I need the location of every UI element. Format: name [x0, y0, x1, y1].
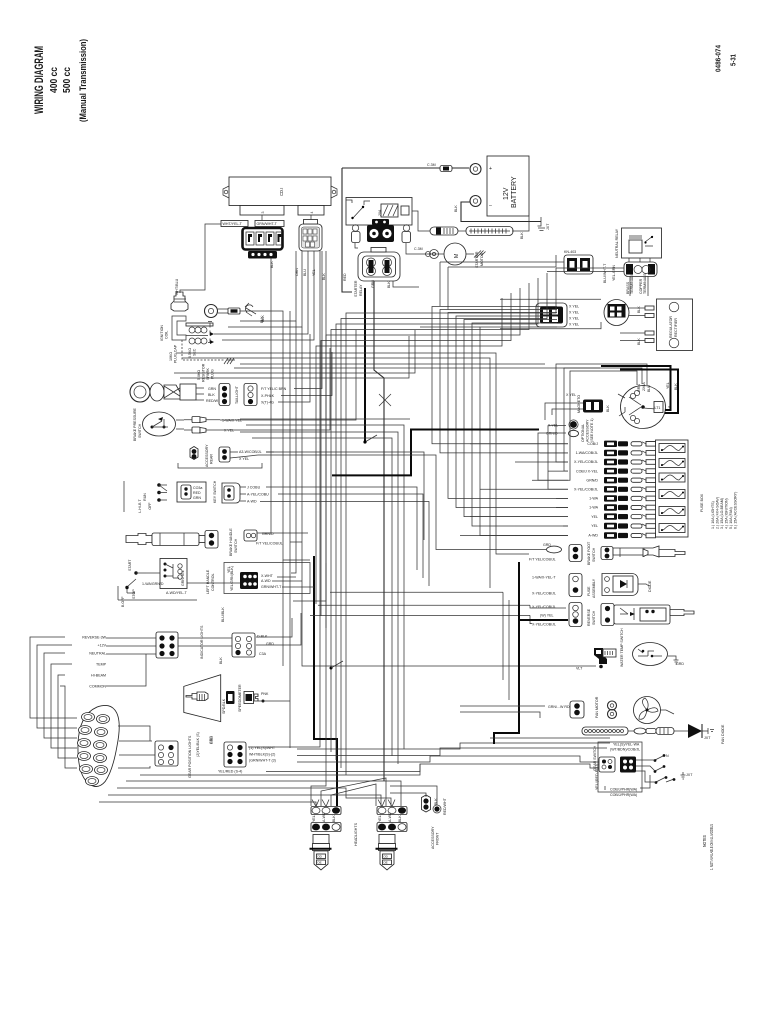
fan motor feed — [460, 705, 545, 707]
fuse row 6 — [480, 486, 656, 492]
indicator 2x3 connector right — [219, 607, 274, 664]
fuse assembly (diode) row — [532, 574, 652, 599]
battery + terminal — [470, 164, 481, 175]
brake pressure rows — [220, 330, 356, 420]
indicator right connector wires — [178, 637, 232, 639]
handlebar connector wires — [277, 576, 296, 578]
svg-text:DIODE: DIODE — [648, 580, 652, 592]
svg-text:C3A: C3A — [259, 652, 267, 656]
svg-text:GRD: GRD — [266, 642, 274, 646]
label box GRN/WHT-T — [255, 221, 284, 227]
svg-text:X YEL: X YEL — [569, 317, 579, 321]
svg-text:SEC: SEC — [193, 348, 197, 356]
wire CDI box to connector — [261, 215, 263, 221]
svg-text:12V: 12V — [503, 187, 510, 200]
regulator feed staircase R2 — [432, 307, 568, 444]
speedometer — [184, 675, 269, 744]
ignition coil — [160, 316, 235, 382]
svg-text:BLK: BLK — [332, 815, 336, 822]
neutral relay feeds — [556, 267, 624, 269]
svg-text:YEL(S)/YEL-WA: YEL(S)/YEL-WA — [613, 743, 640, 747]
svg-text:400 cc: 400 cc — [48, 67, 60, 93]
svg-text:RED/W: RED/W — [206, 399, 219, 403]
CDI trunk verticals with west elbows — [262, 258, 271, 533]
wire battery minus thick — [461, 202, 541, 222]
svg-text:BLK: BLK — [674, 383, 678, 390]
svg-text:A-WD: A-WD — [247, 500, 257, 504]
AC connector frame — [500, 298, 601, 300]
svg-text:GRN/D: GRN/D — [586, 478, 598, 482]
svg-text:X-PHLK: X-PHLK — [261, 394, 275, 398]
optional accessory terminals — [546, 418, 594, 442]
svg-text:X-WHT: X-WHT — [261, 574, 274, 578]
svg-text:FAN DIODE: FAN DIODE — [721, 724, 725, 744]
svg-text:GRD: GRD — [676, 662, 684, 666]
svg-text:ACCESSORY: ACCESSORY — [205, 444, 209, 467]
accessory front — [422, 795, 448, 849]
svg-text:A3-W/COB/JL: A3-W/COB/JL — [239, 450, 262, 454]
svg-text:YEL: YEL — [591, 515, 598, 519]
key switch rows — [266, 487, 417, 570]
svg-text:1.) 10A (LIGHTS): 1.) 10A (LIGHTS) — [711, 501, 715, 529]
svg-text:M: M — [454, 254, 460, 258]
svg-text:JXT: JXT — [704, 736, 711, 740]
svg-text:BRAKE PRESSURE: BRAKE PRESSURE — [133, 407, 137, 441]
svg-text:1-WA/X YEL: 1-WA/X YEL — [222, 419, 242, 423]
svg-text:1. NOT AVAILABLE ON ALL MODELS: 1. NOT AVAILABLE ON ALL MODELS — [709, 824, 714, 870]
svg-text:X YEL: X YEL — [569, 305, 579, 309]
svg-text:X-YEL/COB/JL: X-YEL/COB/JL — [532, 605, 556, 609]
svg-text:PLUG: PLUG — [211, 369, 215, 379]
headlight 2 — [376, 800, 408, 871]
fuse row 9 — [470, 513, 656, 519]
svg-text:2.) 20A (4X4-SOAV): 2.) 20A (4X4-SOAV) — [716, 497, 720, 529]
starter relay connector — [343, 248, 400, 298]
pod to connector wires — [118, 726, 150, 741]
gear switch bottom wires — [604, 786, 606, 790]
svg-text:J COBU: J COBU — [247, 486, 261, 490]
svg-text:–: – — [489, 203, 492, 209]
magneto top wires to fuse rows — [568, 371, 637, 480]
wire battery plus feed — [452, 167, 469, 169]
svg-text:(SEE NOTE 1): (SEE NOTE 1) — [590, 418, 594, 442]
fuse row 2 — [540, 450, 656, 456]
brake foot switch row — [529, 541, 685, 565]
starter motor M — [414, 243, 486, 268]
svg-text:FAN MOTOR: FAN MOTOR — [595, 696, 599, 718]
CDI connector J2 — [295, 220, 326, 281]
light switch link — [123, 481, 125, 512]
spade pair 1 — [192, 417, 200, 423]
svg-text:SPEEDOMETER: SPEEDOMETER — [238, 684, 242, 712]
svg-text:X(T)-4G: X(T)-4G — [261, 401, 274, 405]
svg-text:N: N — [666, 754, 669, 758]
regulator rectifier — [657, 299, 693, 351]
svg-text:GRN/D: GRN/D — [262, 532, 274, 536]
junction arrow on trunk — [330, 667, 333, 670]
svg-text:YEL: YEL — [227, 566, 231, 573]
svg-text:YEL: YEL — [666, 382, 670, 389]
svg-text:WHT/BLU: WHT/BLU — [175, 278, 179, 295]
fan diode — [688, 724, 725, 744]
water temp switch — [576, 628, 684, 671]
left handle links — [146, 572, 160, 574]
svg-text:LEFT HANDLE: LEFT HANDLE — [206, 569, 210, 594]
svg-text:X-YEL/COB/JL: X-YEL/COB/JL — [532, 623, 556, 627]
svg-text:(2)YEL/BLK (S): (2)YEL/BLK (S) — [196, 732, 200, 757]
svg-text:FUSE: FUSE — [587, 586, 591, 596]
thick starter relay down — [364, 288, 366, 442]
svg-text:ASSEMBLY: ASSEMBLY — [592, 578, 596, 598]
svg-text:KN-403: KN-403 — [564, 250, 576, 254]
svg-text:BLK: BLK — [434, 798, 438, 805]
right lower trunk thick — [520, 619, 568, 621]
svg-text:X-YEL/COB/JL: X-YEL/COB/JL — [532, 592, 556, 596]
svg-text:DE: DE — [318, 861, 322, 865]
svg-text:YEL: YEL — [378, 815, 382, 822]
fan motor — [548, 696, 661, 723]
wire ring terminal BLK down — [265, 311, 310, 560]
fuse row 4 — [548, 468, 656, 474]
svg-text:A-WD: A-WD — [588, 534, 598, 538]
fuse 3 — [659, 473, 685, 482]
inline connector 12pin — [582, 727, 628, 735]
regulator terminals — [620, 306, 654, 345]
svg-text:4: 4 — [310, 212, 314, 214]
svg-text:SPD/BLK: SPD/BLK — [222, 698, 226, 714]
KN-403 relay connector — [564, 250, 616, 283]
wire CDI label to spark cap — [180, 224, 221, 293]
thick mid right U-shape — [332, 430, 539, 476]
taillight rows — [294, 251, 322, 389]
magneto — [577, 382, 672, 429]
center nested mesh band — [346, 268, 556, 775]
svg-text:A-WD: A-WD — [261, 579, 271, 583]
svg-text:A-WD/YEL-T: A-WD/YEL-T — [166, 591, 188, 595]
indicator labels to connector — [106, 637, 156, 639]
svg-text:COB/J/PHR(WA): COB/J/PHR(WA) — [610, 788, 637, 792]
svg-text:GRN: GRN — [637, 384, 641, 392]
starter solenoid coil (black) — [367, 225, 394, 242]
svg-text:STOP: STOP — [132, 589, 136, 599]
svg-text:GRD: GRD — [210, 736, 214, 744]
headlight feeds — [99, 802, 316, 806]
svg-text:BLK: BLK — [637, 338, 641, 345]
fuse row 3 — [515, 459, 656, 465]
svg-text:BLK: BLK — [219, 657, 223, 664]
accessory rear — [178, 444, 274, 468]
svg-text:BLU/BLK: BLU/BLK — [221, 607, 225, 622]
svg-text:BATTERY: BATTERY — [511, 176, 518, 208]
ring terminal — [205, 305, 266, 323]
svg-text:+12V: +12V — [98, 644, 107, 648]
battery B1 — [427, 156, 550, 230]
svg-text:IGNITION: IGNITION — [160, 325, 164, 341]
svg-text:WHT/BLK(S)-(2): WHT/BLK(S)-(2) — [249, 753, 275, 757]
svg-text:YEL: YEL — [591, 524, 598, 528]
svg-text:1-WA/GRN/D: 1-WA/GRN/D — [142, 582, 164, 586]
magneto connector wires — [545, 403, 583, 420]
gear ground switches — [654, 754, 694, 784]
svg-text:COB/J: COB/J — [587, 442, 598, 446]
neutral relay connector stubs — [628, 258, 630, 262]
thick trunk vertical lower — [314, 556, 337, 806]
svg-text:BLK: BLK — [322, 273, 326, 280]
svg-text:GRN: GRN — [193, 496, 201, 500]
AC connector pair — [536, 303, 579, 327]
gear switch feed top labels wires — [490, 737, 610, 739]
svg-text:JXT: JXT — [546, 223, 550, 230]
svg-text:REGULATOR: REGULATOR — [669, 316, 673, 338]
brake handle wires — [257, 532, 308, 534]
svg-text:COB/J X-YEL: COB/J X-YEL — [576, 469, 598, 473]
pod connector 2x3 — [155, 732, 214, 778]
svg-text:L.HI-B T: L.HI-B T — [138, 499, 142, 513]
svg-text:RECTIFIER: RECTIFIER — [674, 318, 678, 337]
svg-text:FRONT: FRONT — [436, 832, 440, 845]
wire solenoid leads — [355, 243, 358, 248]
svg-text:F/T YEL/COB/JL: F/T YEL/COB/JL — [256, 542, 283, 546]
svg-text:PNK: PNK — [261, 692, 269, 696]
indicator to pod bus — [30, 637, 77, 718]
svg-text:6.) 15A (ACCESSORY): 6.) 15A (ACCESSORY) — [734, 492, 738, 529]
svg-text:COB/J/PHR(WA): COB/J/PHR(WA) — [610, 793, 637, 797]
ground at battery minus — [538, 217, 542, 226]
CDI trunk long drops — [289, 311, 291, 748]
svg-text:LT1: LT1 — [655, 406, 661, 410]
accessory rear rows — [266, 452, 424, 540]
optional accessory wires — [548, 426, 568, 490]
handlebar connector (black 2x3) — [224, 563, 310, 594]
svg-text:X YEL: X YEL — [569, 323, 579, 327]
svg-text:A-YEL/COBU: A-YEL/COBU — [247, 493, 269, 497]
svg-text:GRN: GRN — [208, 387, 216, 391]
svg-text:MOTOR: MOTOR — [480, 252, 484, 266]
svg-text:HEADLIGHTS: HEADLIGHTS — [354, 822, 358, 846]
svg-text:BLK: BLK — [398, 815, 402, 822]
svg-text:NEUTRAL: NEUTRAL — [89, 652, 106, 656]
chassis ground small — [245, 303, 264, 323]
svg-text:X-YEL/COB/JL: X-YEL/COB/JL — [574, 460, 598, 464]
svg-text:X YEL: X YEL — [239, 457, 249, 461]
svg-text:BLK: BLK — [454, 205, 458, 212]
speedometer wires — [258, 700, 290, 702]
headlight cross wires — [321, 778, 386, 806]
magneto connector — [566, 393, 610, 413]
svg-text:BRAKE FOOT: BRAKE FOOT — [587, 541, 591, 565]
svg-text:GRN/WHT-T: GRN/WHT-T — [261, 585, 282, 589]
svg-text:1-WA: 1-WA — [589, 506, 598, 510]
svg-text:SWITCH: SWITCH — [234, 538, 238, 553]
svg-text:COMMON: COMMON — [89, 685, 106, 689]
svg-text:BLU: BLU — [647, 385, 651, 392]
mid horizontals to relay rows — [176, 353, 529, 554]
svg-text:START: START — [128, 559, 132, 571]
svg-text:TERMINALS: TERMINALS — [643, 273, 647, 294]
inline multi connector — [466, 227, 524, 240]
headlight 1 — [310, 800, 342, 871]
svg-text:BLU/WHT-T: BLU/WHT-T — [603, 263, 607, 283]
svg-text:(1) YEL(S)/WHT: (1) YEL(S)/WHT — [249, 746, 276, 750]
fuse 2 — [659, 459, 685, 468]
svg-text:A-WD: A-WD — [322, 812, 326, 822]
indicator 2x2 connector — [156, 625, 204, 659]
svg-text:DE: DE — [384, 861, 388, 865]
reverse switch row — [532, 603, 694, 627]
svg-text:500 cc: 500 cc — [61, 67, 73, 93]
svg-text:10KΩ: 10KΩ — [169, 352, 173, 361]
svg-text:ORN: ORN — [295, 268, 299, 276]
svg-text:CD.I: CD.I — [279, 188, 284, 196]
svg-text:REVERSE-3W: REVERSE-3W — [82, 636, 106, 640]
water temp frame — [282, 560, 284, 666]
svg-text:BLK: BLK — [637, 306, 641, 313]
svg-text:TERMINALS: TERMINALS — [630, 273, 634, 294]
svg-text:BLK: BLK — [387, 281, 391, 288]
fuse row 5 — [532, 477, 656, 483]
svg-text:5.0KΩ: 5.0KΩ — [197, 370, 201, 380]
svg-text:REVERSE: REVERSE — [587, 608, 591, 626]
label box WHT/YEL-T — [221, 221, 248, 227]
svg-text:X YEL: X YEL — [569, 311, 579, 315]
svg-text:F/T YEL/COB/JL: F/T YEL/COB/JL — [529, 558, 556, 562]
accessory front wires — [390, 793, 426, 797]
fuse 4 — [659, 490, 685, 499]
svg-text:JXT: JXT — [686, 773, 693, 777]
svg-text:HI-BEAM: HI-BEAM — [91, 674, 106, 678]
svg-text:PLUG CAP: PLUG CAP — [174, 344, 178, 363]
svg-text:GRN/...W RD: GRN/...W RD — [548, 705, 570, 709]
svg-text:1-WA/COB/JL: 1-WA/COB/JL — [576, 451, 598, 455]
reverse switch long rows — [330, 591, 404, 593]
svg-text:RUN: RUN — [143, 493, 147, 501]
battery - terminal — [470, 196, 481, 207]
svg-text:5-31: 5-31 — [729, 54, 738, 66]
svg-text:3.) 15A (LO-BEAM): 3.) 15A (LO-BEAM) — [720, 498, 724, 529]
svg-text:GRN/WHT-T: GRN/WHT-T — [257, 222, 278, 226]
svg-text:4.) 15A (IGNITION): 4.) 15A (IGNITION) — [725, 498, 729, 529]
svg-text:ACCESSORY: ACCESSORY — [586, 419, 590, 442]
taillight assembly — [130, 382, 287, 406]
wire relay BLK jog with crossing — [374, 281, 384, 781]
oval grid connector — [604, 300, 629, 326]
indicator lights labels — [82, 636, 106, 689]
light switch — [138, 482, 206, 513]
svg-text:D.BLK: D.BLK — [257, 635, 268, 639]
svg-text:A-WD: A-WD — [388, 812, 392, 822]
svg-text:CO3a: CO3a — [193, 486, 202, 490]
svg-text:BLK: BLK — [270, 261, 274, 268]
fuse 5 — [659, 507, 685, 516]
svg-text:FUSE BOX: FUSE BOX — [700, 493, 704, 512]
svg-text:BRAKE HANDLE: BRAKE HANDLE — [229, 528, 233, 556]
svg-text:C.3M: C.3M — [427, 163, 436, 167]
brake foot switch body — [601, 547, 613, 560]
neutral relay — [615, 228, 662, 258]
svg-text:ACCESSORY: ACCESSORY — [431, 826, 435, 849]
svg-text:YEL/RED (S-4): YEL/RED (S-4) — [218, 770, 242, 774]
fuse row 10 — [563, 523, 656, 529]
svg-text:+: + — [489, 166, 492, 172]
CDI unit U1 — [223, 177, 337, 215]
key switch — [213, 480, 269, 503]
svg-text:GEAR POSITION LIGHTS: GEAR POSITION LIGHTS — [188, 735, 192, 778]
wire relay GRN down — [393, 281, 419, 287]
svg-text:TAILLIGHT: TAILLIGHT — [235, 385, 239, 404]
svg-text:WIRING DIAGRAM: WIRING DIAGRAM — [34, 46, 46, 114]
fuse 1 — [659, 444, 685, 453]
svg-text:STARTER: STARTER — [475, 251, 479, 268]
solenoid terminals — [352, 219, 411, 243]
left handle control — [118, 559, 215, 608]
svg-text:OPTIONAL: OPTIONAL — [581, 424, 585, 442]
svg-text:(WT/BDN)/COB/JL: (WT/BDN)/COB/JL — [610, 748, 640, 752]
brake pressure switch — [133, 407, 242, 441]
svg-text:20A: 20A — [378, 209, 382, 216]
gear position rows right — [297, 743, 610, 749]
svg-text:X YEL: X YEL — [224, 429, 234, 433]
main fuse — [430, 227, 458, 235]
svg-text:CONTROL: CONTROL — [211, 573, 215, 591]
instrument pod — [76, 704, 121, 787]
svg-text:RED: RED — [193, 491, 201, 495]
svg-text:TEMP: TEMP — [96, 663, 107, 667]
fuse row 7 — [556, 495, 656, 501]
fuse row 8 — [556, 504, 656, 510]
svg-text:0486-074: 0486-074 — [714, 44, 723, 72]
svg-text:BLK: BLK — [606, 405, 610, 412]
svg-text:BLK: BLK — [260, 316, 264, 323]
svg-text:5.) 10A (FAN): 5.) 10A (FAN) — [729, 507, 733, 529]
fuse row 11 — [460, 532, 656, 538]
gear position connector 2x4 — [218, 742, 276, 774]
svg-text:NEUTRAL RELAY: NEUTRAL RELAY — [615, 228, 619, 258]
svg-text:1-WA: 1-WA — [589, 497, 598, 501]
brake handle switch — [126, 528, 283, 556]
inline connector barrel — [634, 728, 674, 735]
svg-text:RELAY: RELAY — [359, 284, 363, 296]
regulator to magneto thick — [601, 366, 671, 410]
svg-text:3: 3 — [261, 212, 265, 214]
svg-text:WATER TEMP SWITCH: WATER TEMP SWITCH — [620, 628, 624, 667]
svg-text:(Manual Transmission): (Manual Transmission) — [78, 39, 89, 122]
spade pair 2 — [192, 427, 200, 433]
svg-text:RED/WHT: RED/WHT — [443, 797, 447, 815]
wire relay box to fuse — [412, 211, 430, 231]
svg-text:BLU: BLU — [303, 269, 307, 276]
svg-text:YEL-GRN: YEL-GRN — [612, 265, 616, 281]
svg-text:(GRN/WHT-T (3): (GRN/WHT-T (3) — [249, 759, 276, 763]
svg-text:KEY SWITCH: KEY SWITCH — [213, 480, 217, 503]
svg-text:COIL: COIL — [165, 331, 169, 339]
svg-text:MAGNETO: MAGNETO — [577, 395, 581, 413]
svg-text:YEL: YEL — [312, 815, 316, 822]
svg-text:X YEL: X YEL — [566, 393, 576, 397]
svg-text:X-YEL/COB/JL: X-YEL/COB/JL — [574, 488, 598, 492]
circuit breaker box — [346, 198, 412, 226]
inline connector C.3M — [440, 166, 452, 172]
svg-text:NOTES: NOTES — [702, 835, 707, 847]
svg-text:BLK: BLK — [520, 232, 524, 239]
svg-text:BLK: BLK — [208, 393, 215, 397]
fuse 6 — [659, 524, 685, 533]
svg-text:RED: RED — [343, 273, 347, 281]
svg-text:B.OFF: B.OFF — [121, 596, 125, 607]
svg-text:STARTER: STARTER — [354, 280, 358, 297]
fan inline connector wires — [628, 730, 634, 732]
svg-text:(W) YEL: (W) YEL — [540, 614, 554, 618]
title block — [34, 39, 738, 870]
